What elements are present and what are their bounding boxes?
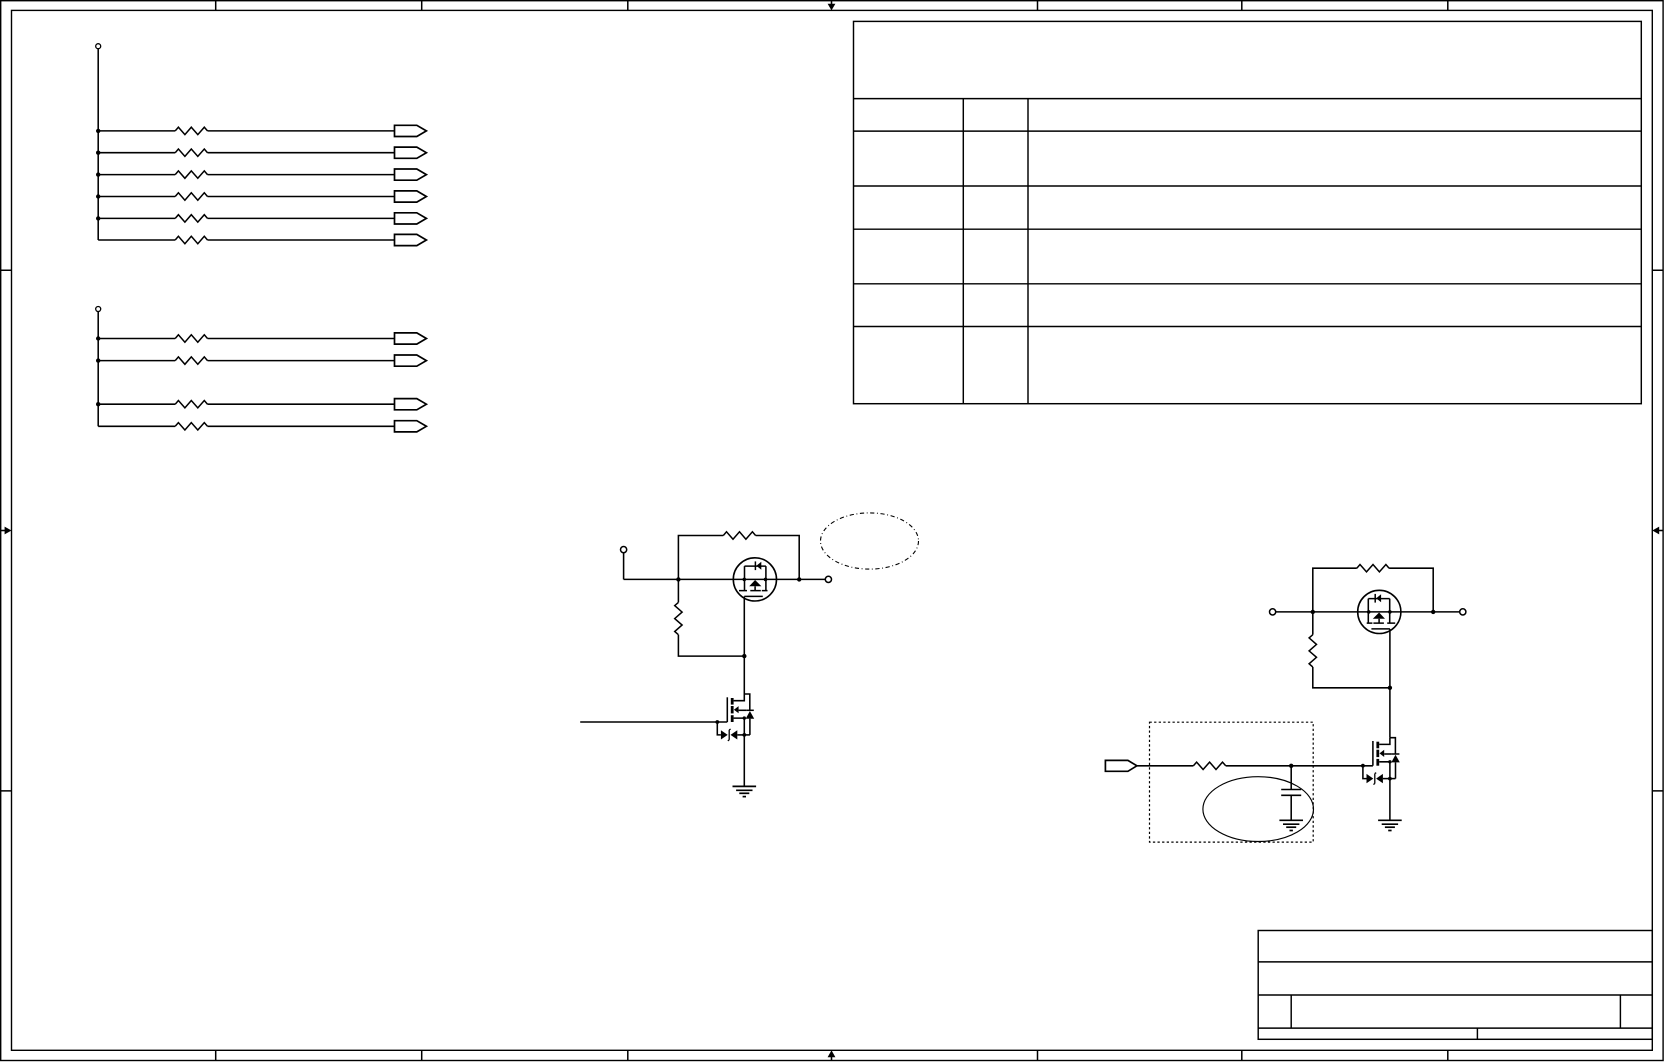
resistor R8 bbox=[175, 357, 207, 364]
node IN2 terminal bbox=[1270, 609, 1276, 615]
resistor R15 bbox=[1193, 762, 1225, 769]
wire input left right-ckt bbox=[1137, 765, 1194, 767]
wire row 5 right bbox=[208, 217, 395, 219]
resistor R12 bbox=[675, 602, 682, 634]
wire row 7 left bbox=[98, 338, 175, 340]
resistor R5 bbox=[175, 215, 207, 222]
resistor R1 bbox=[175, 127, 207, 134]
wire top rail right right-ckt bbox=[1389, 568, 1433, 612]
junction row 4 bbox=[96, 194, 100, 198]
resistor R14 bbox=[1309, 635, 1316, 667]
zone tick marks left edge bbox=[1, 270, 12, 791]
wire capacitor top bbox=[1290, 766, 1292, 790]
wire row 8 right bbox=[208, 360, 395, 362]
dotted box RC filter bbox=[1150, 722, 1314, 842]
ground capacitor bbox=[1279, 820, 1303, 830]
zone tick marks bottom edge bbox=[216, 1050, 1448, 1060]
wire row 2 right bbox=[208, 152, 395, 154]
wire gate input line center bbox=[580, 721, 727, 723]
resistor R13 bbox=[1357, 565, 1389, 572]
junction gate node right-ckt bbox=[1388, 686, 1392, 690]
wire capacitor bottom bbox=[1290, 795, 1292, 820]
wire gate pull branch bottom center bbox=[678, 635, 744, 656]
transistor Q2 NMOS bbox=[715, 694, 754, 786]
center arrow bottom edge bbox=[828, 1050, 836, 1060]
wire row 3 left bbox=[98, 174, 175, 176]
junction right-ckt right bbox=[1431, 610, 1435, 614]
resistor R9 bbox=[175, 401, 207, 408]
center arrow right edge bbox=[1652, 527, 1663, 535]
wire row 2 left bbox=[98, 152, 175, 154]
node VCC1 terminal bbox=[96, 44, 101, 49]
junction row 9 bbox=[96, 402, 100, 406]
net flag row 1 bbox=[395, 125, 427, 136]
junction center left bbox=[676, 577, 680, 581]
transistor Q3 PMOS bbox=[1358, 590, 1401, 633]
wire row 6 left bbox=[98, 239, 175, 241]
net flag row 3 bbox=[395, 169, 427, 180]
net flag row 4 bbox=[395, 191, 427, 202]
transistor Q1 PMOS bbox=[733, 558, 776, 601]
resistor R10 bbox=[175, 423, 207, 430]
wire input right right-ckt bbox=[1226, 765, 1373, 767]
net flag row 9 bbox=[395, 399, 427, 410]
wire bus vertical 1 bbox=[97, 49, 99, 240]
wire row 7 right bbox=[208, 338, 395, 340]
net flag row 10 bbox=[395, 421, 427, 432]
net flag row 6 bbox=[395, 234, 427, 245]
wire row 1 left bbox=[98, 130, 175, 132]
junction cap node bbox=[1289, 764, 1293, 768]
zone tick marks right edge bbox=[1652, 270, 1663, 791]
junction row 8 bbox=[96, 358, 100, 362]
wire row 10 right bbox=[208, 425, 395, 427]
wire row 4 right bbox=[208, 196, 395, 198]
wire top rail left right-ckt bbox=[1313, 568, 1357, 612]
junction right-ckt left bbox=[1311, 610, 1315, 614]
center arrow top edge bbox=[828, 1, 836, 11]
node VCC2 terminal bbox=[96, 307, 101, 312]
net flag row 7 bbox=[395, 333, 427, 344]
wire row 5 left bbox=[98, 217, 175, 219]
net flag row 2 bbox=[395, 147, 427, 158]
node OUT2 terminal bbox=[1460, 609, 1466, 615]
junction row 7 bbox=[96, 336, 100, 340]
highlight ellipse dash-dot bbox=[821, 513, 919, 569]
wire row 4 left bbox=[98, 196, 175, 198]
wire top rail left center bbox=[678, 536, 723, 580]
wire row 1 right bbox=[208, 130, 395, 132]
transistor Q4 NMOS bbox=[1361, 738, 1400, 821]
wire IN1 stem bbox=[623, 553, 625, 580]
node OUT1 terminal bbox=[825, 576, 831, 582]
wire row 8 left bbox=[98, 360, 175, 362]
wire top rail right center bbox=[756, 536, 800, 580]
wire row 9 right bbox=[208, 403, 395, 405]
title block bbox=[1258, 931, 1652, 1040]
junction center right bbox=[797, 577, 801, 581]
junction row 3 bbox=[96, 172, 100, 176]
wire gate pull branch bottom right-ckt bbox=[1313, 667, 1390, 688]
wire row 10 left bbox=[98, 425, 175, 427]
wire gate stem Q1 bbox=[743, 596, 745, 694]
resistor R6 bbox=[175, 236, 207, 243]
zone tick marks top edge bbox=[216, 1, 1448, 11]
wire gate stem Q3 bbox=[1389, 629, 1391, 738]
resistor R7 bbox=[175, 335, 207, 342]
wire row 6 right bbox=[208, 239, 395, 241]
junction row 2 bbox=[96, 151, 100, 155]
revision table bbox=[854, 21, 1642, 403]
ground center circuit bbox=[733, 786, 757, 796]
junction row 1 bbox=[96, 129, 100, 133]
wire main horizontal center circuit bbox=[624, 578, 826, 580]
resistor R4 bbox=[175, 193, 207, 200]
junction gate node center bbox=[742, 654, 746, 658]
net flag row 5 bbox=[395, 213, 427, 224]
wire gate pull branch vertical right-ckt bbox=[1312, 612, 1314, 635]
capacitor C1 bbox=[1281, 790, 1301, 796]
net flag input right-ckt bbox=[1105, 760, 1137, 771]
wire main horizontal right circuit bbox=[1276, 611, 1460, 613]
wire row 3 right bbox=[208, 174, 395, 176]
wire row 9 left bbox=[98, 403, 175, 405]
ground right circuit bbox=[1378, 820, 1402, 830]
resistor R2 bbox=[175, 149, 207, 156]
wire bus vertical 2 bbox=[97, 312, 99, 427]
resistor R11 bbox=[723, 532, 755, 539]
wire gate pull branch vertical center bbox=[677, 579, 679, 602]
junction row 5 bbox=[96, 216, 100, 220]
resistor R3 bbox=[175, 171, 207, 178]
node IN1 terminal bbox=[621, 547, 627, 553]
net flag row 8 bbox=[395, 355, 427, 366]
highlight ellipse solid bbox=[1203, 777, 1314, 842]
center arrow left edge bbox=[1, 527, 12, 535]
